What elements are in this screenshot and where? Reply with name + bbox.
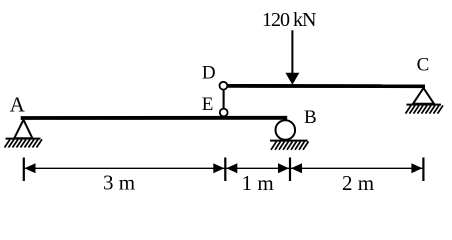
dimension tick at A <box>23 158 25 182</box>
hinge D <box>220 82 228 90</box>
dim arrowhead right of 2m <box>411 163 422 173</box>
dimension tick at C <box>422 158 424 182</box>
dim arrowhead left of 1m <box>226 163 237 173</box>
dim arrowhead right of 1m <box>278 163 289 173</box>
svg-text:E: E <box>202 94 214 115</box>
link DE <box>223 86 225 113</box>
dimension tick at E <box>224 158 226 182</box>
load arrow 120kN <box>285 30 299 85</box>
svg-text:120 kN: 120 kN <box>262 9 316 31</box>
dim arrowhead right of 3m <box>213 163 224 173</box>
svg-text:D: D <box>202 62 216 83</box>
dimension tick at B <box>289 158 291 182</box>
svg-text:B: B <box>304 107 317 128</box>
support A (pin) <box>5 120 43 148</box>
roller B <box>270 120 309 150</box>
dim arrowhead left of 2m <box>291 163 302 173</box>
dim arrowhead left of 3m <box>25 163 36 173</box>
svg-text:C: C <box>417 55 430 76</box>
svg-text:2 m: 2 m <box>342 171 374 195</box>
svg-text:A: A <box>10 92 26 116</box>
beam DC <box>227 84 425 88</box>
beam AB <box>21 116 288 120</box>
dimension line <box>24 167 424 169</box>
hinge E <box>220 109 228 117</box>
support C (pin) <box>406 88 444 114</box>
svg-text:3 m: 3 m <box>103 171 135 195</box>
svg-text:1 m: 1 m <box>242 171 274 195</box>
